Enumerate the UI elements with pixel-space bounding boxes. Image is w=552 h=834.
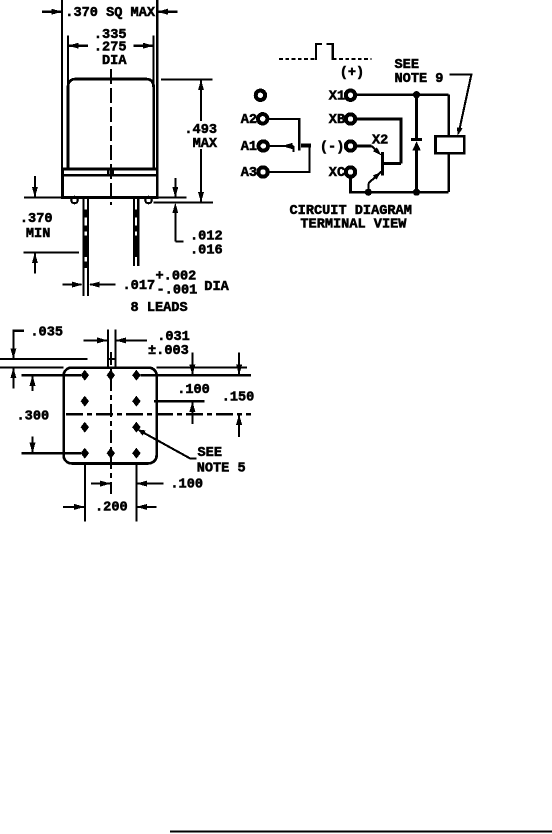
wire A2 contact	[269, 119, 299, 151]
lead left	[83, 198, 89, 297]
wire XC bottom rail	[351, 178, 449, 193]
svg-text:SEE: SEE	[395, 58, 419, 73]
svg-text:.200: .200	[95, 501, 128, 516]
wire X1 to coil	[357, 93, 449, 96]
svg-text:X2: X2	[372, 134, 388, 149]
package top edge extension left	[0, 367, 64, 369]
svg-text:XB: XB	[329, 113, 345, 128]
dimension .012/.016 lower arrow and leader	[172, 203, 183, 242]
label (-)	[320, 140, 344, 155]
row 1 extension line right	[141, 374, 251, 376]
row 2 extension line right	[154, 400, 204, 402]
dimension .335/.275 left arrow	[68, 43, 88, 49]
diode CR1 branch	[415, 95, 418, 193]
svg-text:DIA: DIA	[204, 280, 229, 295]
dimension label .031 ±.003	[148, 330, 190, 359]
svg-text:NOTE 5: NOTE 5	[197, 461, 246, 476]
svg-text:.017: .017	[123, 279, 156, 294]
dimension .370 MIN extension line (lead tips)	[24, 252, 80, 254]
svg-text:-.001: -.001	[157, 284, 198, 299]
svg-text:NOTE 9: NOTE 9	[395, 72, 444, 87]
dimension .300 down arrow	[30, 437, 36, 454]
dimension label .200	[95, 501, 128, 516]
row 1 extension line left	[22, 374, 81, 376]
label (+)	[340, 66, 364, 81]
label XC	[329, 166, 345, 181]
terminal X1	[346, 91, 355, 100]
svg-text:DIA: DIA	[102, 54, 127, 69]
standoff line upper	[0, 358, 88, 360]
flange index tab ticks	[108, 169, 113, 175]
base arrow	[372, 146, 382, 156]
dimension .370 SQ MAX left arrow	[42, 9, 62, 15]
dimension .300 up arrow	[30, 375, 36, 391]
seating plane line	[154, 202, 213, 204]
dimension .100 bottom left arrow	[91, 481, 111, 487]
dimension label .150	[222, 391, 255, 406]
dimension .150 up arrow	[236, 414, 242, 437]
note 5 label	[197, 446, 246, 476]
row 4 extension line	[22, 452, 81, 454]
dimension .370 MIN down arrow	[32, 176, 38, 198]
column 3 extension line	[135, 463, 137, 521]
dimension label .493 MAX	[184, 123, 218, 152]
relay coil K1 wire top	[447, 95, 450, 137]
dimension .493 MAX up arrow	[198, 80, 204, 121]
terminal minus	[346, 141, 355, 150]
input pulse waveform	[279, 43, 372, 60]
dimension .017 left arrow	[63, 282, 83, 288]
can centerline	[110, 69, 112, 205]
terminal A3	[258, 167, 267, 176]
dimension .370 SQ MAX extension line left	[61, 0, 63, 169]
dimension label .012/.016	[190, 229, 223, 258]
dimension label .370 SQ MAX	[65, 6, 156, 21]
footer rule line	[170, 830, 552, 832]
note 5 leader arrow	[138, 429, 197, 458]
terminal XC	[346, 167, 355, 176]
label A1	[241, 140, 257, 155]
dimension .100 down arrow (right)	[189, 353, 195, 376]
terminal A-top (unlabeled)	[256, 91, 265, 100]
column 1 extension line	[84, 463, 86, 521]
dimension .370 SQ MAX extension line right	[156, 0, 158, 169]
label A2	[241, 113, 257, 128]
note 9 label	[395, 58, 444, 87]
flange inner line	[62, 174, 157, 177]
dimension .493 MAX extension line (can top)	[161, 79, 213, 81]
svg-text:.035: .035	[30, 326, 63, 341]
terminal A1	[259, 141, 268, 150]
dimension .370 SQ MAX right arrow	[157, 9, 177, 15]
lead pins (bottom view)	[81, 370, 141, 459]
svg-text:±.003: ±.003	[148, 344, 189, 359]
svg-text:.370: .370	[20, 212, 53, 227]
svg-text:+.002: +.002	[156, 269, 197, 284]
dimension label .335	[94, 28, 127, 43]
relay coil K1 box	[436, 136, 465, 153]
svg-text:A1: A1	[241, 140, 257, 155]
dimension .017 right arrow	[89, 282, 115, 288]
label X2	[372, 134, 388, 149]
dimension label .017 +.002/-.001 DIA	[123, 269, 230, 298]
dimension .335 extension line right	[153, 35, 155, 92]
svg-text:.016: .016	[190, 243, 223, 258]
dimension label .100 (bottom)	[170, 477, 203, 492]
dimension .335 extension line left	[67, 35, 69, 92]
diode CR1 anode triangle	[413, 141, 421, 150]
terminal XB	[346, 114, 355, 123]
junction X1/diode	[413, 91, 420, 98]
svg-text:XC: XC	[329, 166, 345, 181]
dimension label .100 (right)	[177, 383, 210, 398]
flange outline	[62, 169, 157, 198]
dimension .035 lower arrow	[10, 368, 16, 389]
svg-text:.100: .100	[177, 383, 210, 398]
lead right	[133, 198, 139, 267]
dimension label DIA	[102, 54, 127, 69]
dimension .200 right arrow	[136, 504, 156, 510]
svg-text:.031: .031	[157, 330, 190, 345]
horizontal centerline	[66, 413, 251, 415]
label XB	[329, 113, 345, 128]
svg-text:.300: .300	[17, 410, 50, 425]
dimension label .275	[94, 41, 127, 56]
dimension label .370 MIN	[20, 212, 53, 242]
standoff bump right	[145, 197, 152, 204]
dimension label 8 LEADS	[131, 301, 188, 316]
label A3	[241, 166, 257, 181]
junction diode/rail	[413, 189, 420, 196]
svg-text:MIN: MIN	[26, 227, 50, 242]
svg-text:A2: A2	[241, 113, 257, 128]
dimension label .300	[17, 410, 50, 425]
wire XB to collector	[357, 119, 401, 164]
svg-text:.370 SQ MAX: .370 SQ MAX	[65, 6, 156, 21]
dimension .031 left arrow	[84, 337, 108, 343]
dimension .493 MAX down arrow	[198, 149, 204, 203]
caption TERMINAL VIEW	[300, 218, 407, 233]
can outline	[68, 79, 154, 169]
relay coil K1 wire bottom	[447, 153, 450, 192]
svg-text:.012: .012	[190, 229, 223, 244]
svg-text:A3: A3	[241, 166, 257, 181]
label X1	[329, 89, 345, 104]
wire base from terminal minus	[357, 145, 372, 148]
A3 fixed contact bar	[301, 144, 311, 148]
svg-text:TERMINAL VIEW: TERMINAL VIEW	[300, 218, 407, 233]
caption CIRCUIT DIAGRAM	[290, 204, 412, 219]
svg-text:(+): (+)	[340, 66, 364, 81]
svg-text:X1: X1	[329, 89, 345, 104]
package outline (bottom view)	[64, 368, 157, 464]
diode CR1 cathode bar	[411, 138, 422, 141]
svg-text:SEE: SEE	[198, 446, 222, 461]
terminal A2	[258, 114, 267, 123]
dimension .031 right arrow	[115, 337, 147, 343]
dimension .200 left arrow	[63, 504, 85, 510]
wire collector horizontal	[383, 162, 401, 165]
dimension .335/.275 right arrow	[134, 43, 154, 49]
dimension .035 bracket and label	[10, 326, 63, 359]
svg-text:.150: .150	[222, 391, 255, 406]
transistor X2 emitter with arrow	[368, 171, 382, 192]
flange bottom extension line	[24, 196, 187, 198]
junction emitter/rail	[365, 189, 372, 196]
index tab	[108, 359, 116, 368]
transistor X2 base bar	[381, 152, 384, 176]
dimension .100 up arrow (right)	[189, 401, 195, 424]
svg-text:(-): (-)	[320, 140, 344, 155]
vertical centerline	[110, 352, 112, 494]
dimension .012/.016 upper arrow	[172, 178, 178, 198]
wire A1 armature with arrow	[269, 143, 293, 152]
dimension .100 bottom right arrow	[136, 481, 163, 487]
svg-text:8 LEADS: 8 LEADS	[131, 301, 188, 316]
svg-text:.100: .100	[170, 477, 203, 492]
dimension .150 down arrow	[236, 353, 242, 376]
dimension .370 MIN up arrow	[32, 253, 38, 274]
tab extension lines	[108, 330, 116, 359]
svg-text:MAX: MAX	[193, 137, 218, 152]
package top edge extension right	[157, 367, 247, 369]
note 9 leader arrow	[450, 74, 472, 135]
standoff bump left	[71, 197, 78, 204]
wire A3 contact	[269, 146, 309, 172]
